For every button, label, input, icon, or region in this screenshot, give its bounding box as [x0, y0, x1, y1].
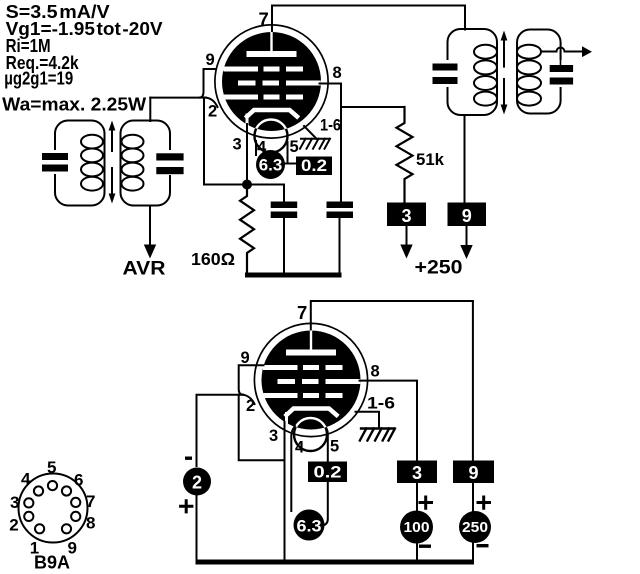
battery circle 2	[183, 468, 211, 496]
B9A pin 6	[62, 486, 71, 495]
svg-text:7: 7	[297, 302, 307, 323]
capacitor C1	[40, 150, 70, 174]
bottom rail	[196, 560, 475, 565]
wire C3 to rail	[283, 218, 285, 273]
svg-text:1-6: 1-6	[367, 395, 395, 413]
IF transformer T2 secondary coil L4	[517, 30, 561, 114]
AVR arrowhead	[144, 245, 156, 259]
heater voltage circle 6.3 V1	[255, 141, 257, 155]
capacitor C2	[155, 150, 185, 175]
B9A base outline	[19, 474, 88, 543]
junction node dot	[242, 180, 252, 190]
svg-text:0.2: 0.2	[301, 157, 327, 175]
T2 tuning arrows	[503, 40, 505, 67]
B9A pin 9	[62, 524, 71, 533]
wire pin8 branch to R2	[341, 106, 405, 108]
wire pins 1-6 to ground V2	[356, 412, 380, 429]
B9A pin 1	[35, 524, 44, 533]
output arrow wire	[542, 51, 556, 53]
wire box 9 to voltage circle 250	[472, 483, 474, 511]
heater current box 0.2 V1	[285, 142, 296, 164]
voltage circle 100	[400, 511, 433, 544]
B9A pin 8	[71, 512, 80, 521]
svg-text:5: 5	[47, 458, 56, 477]
arrow below box 3	[406, 226, 408, 246]
B9A pin 4	[34, 486, 43, 495]
resistor R1 160 ohm	[240, 190, 254, 274]
svg-text:2: 2	[192, 473, 202, 493]
output arrowhead	[582, 46, 592, 57]
wire anode column to box 9	[472, 301, 474, 461]
wire grid (pin2/9 node) to T1	[150, 97, 206, 99]
wire C4 to rail	[339, 218, 341, 273]
svg-text:µg2g1=19: µg2g1=19	[4, 69, 73, 89]
svg-text:1-6: 1-6	[320, 117, 341, 135]
capacitor C4	[327, 202, 354, 209]
screen current box 3 V2	[397, 461, 437, 484]
svg-text:3: 3	[401, 206, 411, 226]
wire pin3 V1 to junction	[246, 124, 248, 185]
B9A pin 3	[24, 498, 33, 507]
svg-text:3: 3	[10, 493, 19, 512]
capacitor C5	[431, 60, 460, 87]
minus sign 100	[419, 545, 431, 548]
anode current box 9	[448, 203, 487, 227]
screen current box 3	[387, 203, 426, 227]
IF transformer T2 primary coil L3	[448, 29, 498, 115]
svg-text:3: 3	[412, 463, 422, 483]
voltage circle 250	[459, 511, 491, 543]
wire node to battery 2	[197, 395, 244, 466]
wire T1 secondary top to grid wire	[149, 98, 151, 121]
wire node down to cathode wire	[239, 395, 285, 461]
plus sign 100	[420, 497, 432, 508]
svg-text:9: 9	[462, 206, 472, 226]
wire pin9 stub V1	[200, 69, 225, 98]
plus sign 250	[478, 497, 490, 508]
wire pin5 lead V2	[327, 429, 328, 462]
svg-text:B9A: B9A	[34, 553, 70, 573]
heater voltage circle 6.3 V2	[294, 510, 325, 541]
svg-text:+250: +250	[415, 258, 463, 279]
capacitor C6	[548, 60, 575, 87]
svg-text:160Ω: 160Ω	[191, 249, 235, 269]
arrow below box 9	[466, 226, 468, 247]
wire pin3 V2 to rail	[284, 422, 286, 560]
anode current box 9 V2	[453, 461, 494, 484]
T1 tuning arrows	[111, 130, 113, 151]
svg-text:6: 6	[74, 471, 83, 490]
svg-text:100: 100	[404, 519, 430, 536]
svg-text:51k: 51k	[416, 150, 445, 169]
heater current box 0.2 V2	[308, 462, 347, 483]
svg-text:5: 5	[330, 438, 339, 456]
IF transformer T1 primary coil L1	[55, 121, 105, 206]
plus sign battery 2	[181, 501, 192, 512]
svg-text:9: 9	[468, 463, 478, 483]
B9A pin 2	[24, 512, 33, 521]
wire pin2 lead V2	[243, 395, 255, 404]
wire box 3 to voltage circle 100	[416, 483, 418, 511]
wire pin8 V1	[320, 84, 342, 202]
wire top rail into T2	[464, 6, 466, 30]
svg-text:7: 7	[259, 9, 269, 30]
wire node down to cathode row	[204, 98, 242, 185]
svg-text:7: 7	[86, 492, 95, 511]
svg-text:3: 3	[233, 136, 242, 154]
svg-text:0.2: 0.2	[314, 464, 342, 482]
svg-text:3: 3	[269, 427, 278, 445]
svg-text:9: 9	[206, 51, 215, 69]
wire pins 1-6 to ground V1	[304, 126, 317, 139]
wire junction to C3	[247, 185, 284, 202]
svg-text:4: 4	[295, 439, 305, 457]
svg-text:6.3: 6.3	[259, 157, 283, 175]
wire anode V1 to top rail	[272, 6, 465, 32]
wire pin4 lead V2	[291, 426, 295, 511]
B9A pin 7	[71, 498, 80, 507]
ground symbol V2	[360, 429, 395, 441]
wire battery 2 to rail	[196, 496, 198, 561]
svg-text:8: 8	[86, 514, 95, 533]
pentode V2	[254, 323, 367, 451]
minus sign 250	[477, 544, 489, 547]
bottom rail top circuit	[245, 273, 342, 278]
wire pin2 lead V1	[206, 98, 218, 107]
svg-text:2: 2	[208, 103, 217, 121]
svg-text:8: 8	[333, 64, 342, 82]
svg-text:250: 250	[462, 519, 488, 536]
svg-text:AVR: AVR	[123, 259, 166, 280]
svg-text:5: 5	[290, 138, 299, 156]
svg-text:2: 2	[9, 516, 18, 535]
pentode V1	[215, 25, 328, 153]
wire T2 primary bottom to box 9	[464, 115, 466, 203]
wire circle 250 to rail	[472, 543, 474, 560]
svg-text:8: 8	[371, 363, 380, 381]
svg-text:6.3: 6.3	[297, 518, 322, 536]
svg-text:Wa=max. 2.25W: Wa=max. 2.25W	[2, 95, 146, 115]
wire anode V2 to right column	[311, 301, 473, 330]
IF transformer T1 secondary coil L2	[121, 121, 171, 206]
wire circle 100 to rail	[416, 544, 418, 560]
B9A pin 5	[48, 481, 57, 490]
wire T1 secondary bottom to AVR	[149, 206, 151, 247]
wire pin9 stub V2	[239, 365, 264, 394]
svg-text:4: 4	[21, 470, 31, 489]
ground symbol V1	[300, 139, 330, 149]
capacitor C3	[271, 202, 298, 209]
resistor R2 51k	[397, 107, 413, 203]
wire pin8 V2 to box 3	[360, 381, 418, 461]
wire box 0.2 to heater circle V2	[323, 482, 328, 526]
wire C6 top tap	[560, 52, 562, 66]
minus sign battery 2	[185, 457, 192, 460]
